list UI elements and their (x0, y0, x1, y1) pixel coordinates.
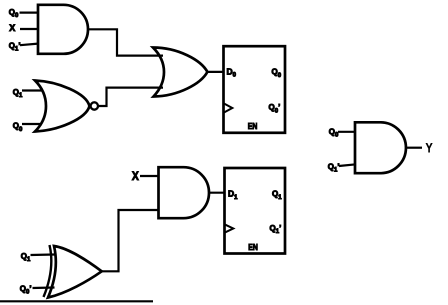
flip-flop FF0 box (224, 46, 286, 133)
wire: Q1' input stub to AND gate U6 (339, 164, 356, 166)
svg-text:Q0: Q0 (9, 8, 19, 19)
wire: U3 output to D0 of flip-flop FF0 (207, 71, 225, 73)
svg-text:D0: D0 (227, 66, 237, 78)
svg-text:Q1’: Q1’ (328, 162, 340, 173)
NOR gate U2 body (2-input, left) (35, 81, 90, 132)
wire: U2 output to OR gate U3 bottom input (98, 88, 163, 106)
svg-text:Q0: Q0 (272, 68, 282, 79)
svg-text:EN: EN (248, 121, 258, 131)
AND gate U4 (middle) (159, 167, 210, 218)
wire: Q1 input stub to XOR gate U5 (31, 253, 55, 256)
wire: Q0' input stub to XOR gate U5 (33, 286, 55, 289)
svg-text:X: X (132, 171, 139, 183)
FF0 clock edge triangle (224, 103, 233, 112)
wire: Q1 input stub to NOR gate U2 (22, 89, 42, 91)
wire: Q1' input stub to AND gate U1 (20, 44, 38, 46)
flip-flop FF1 box (225, 168, 286, 254)
svg-text:D1: D1 (228, 189, 238, 201)
svg-text:Q1: Q1 (13, 88, 23, 99)
wire: XOR U5 output up to U4 bottom input (102, 210, 159, 271)
wire: Q0 input stub to NOR gate U2 (22, 123, 42, 125)
AND gate U1 (3-input, top-left) (38, 5, 88, 54)
svg-text:Q1: Q1 (272, 190, 282, 201)
svg-text:Q1’: Q1’ (9, 41, 21, 52)
svg-text:EN: EN (248, 242, 258, 252)
XOR gate U5 leading double-line arc (44, 245, 52, 297)
XOR gate U5 body (48, 246, 102, 298)
svg-text:X: X (9, 23, 15, 33)
wire: Q0 input stub to AND gate U1 (20, 12, 39, 14)
svg-text:Q1: Q1 (21, 252, 31, 263)
FF1 clock edge triangle (225, 224, 234, 232)
svg-text:Y: Y (426, 141, 432, 155)
AND gate U6 (right, output Y) (355, 122, 406, 173)
horizontal rule at bottom-left (0, 300, 153, 302)
svg-text:Q0: Q0 (13, 122, 23, 133)
wire: X input stub to AND gate U4 (140, 175, 159, 177)
svg-text:Q0’: Q0’ (269, 103, 281, 114)
svg-text:Q1’: Q1’ (270, 224, 282, 235)
wire: U1 output to OR gate U3 top input (88, 29, 163, 55)
OR gate U3 (top middle) (153, 48, 207, 97)
wire: U6 output to Y (406, 147, 422, 149)
NOR gate U2 output inversion bubble (91, 102, 98, 109)
wire: X input stub to AND gate U1 (20, 28, 38, 30)
wire: U4 output to D1 of flip-flop FF1 (209, 192, 226, 194)
svg-text:Q0: Q0 (329, 128, 339, 139)
svg-text:Q0’: Q0’ (20, 285, 32, 296)
wire: Q0 input stub to AND gate U6 (338, 131, 356, 133)
